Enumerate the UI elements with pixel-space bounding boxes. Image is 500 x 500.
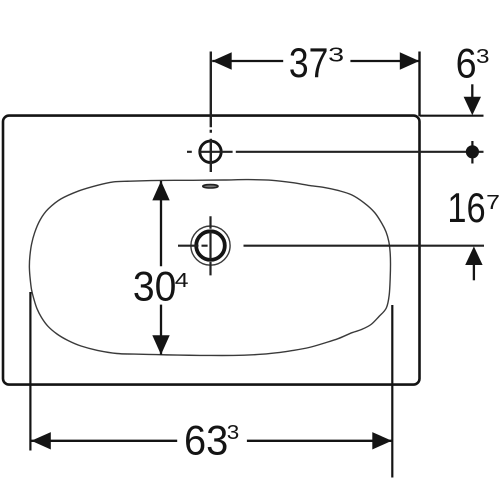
svg-text:3: 3	[227, 422, 240, 444]
svg-text:3: 3	[328, 44, 344, 66]
svg-text:30: 30	[133, 263, 177, 310]
svg-text:4: 4	[175, 270, 189, 292]
svg-text:3: 3	[476, 46, 490, 68]
svg-text:63: 63	[184, 416, 228, 463]
svg-text:16: 16	[447, 184, 485, 231]
svg-text:37: 37	[289, 39, 329, 86]
svg-text:6: 6	[456, 40, 477, 87]
svg-text:7: 7	[486, 192, 500, 214]
